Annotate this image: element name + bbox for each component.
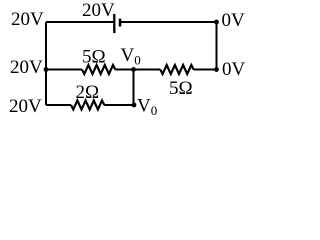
wire V0 drop <box>133 70 135 106</box>
wire bottom right of R3 <box>104 104 134 106</box>
wire middle between R1 and R2 <box>115 69 160 71</box>
wire middle right of R2 <box>194 69 217 71</box>
battery B1 long plate (+) <box>113 14 115 33</box>
svg-text:20V: 20V <box>9 96 42 117</box>
battery B1 short plate (-) <box>119 19 122 27</box>
svg-text:5Ω: 5Ω <box>169 78 193 99</box>
svg-text:0V: 0V <box>222 59 246 80</box>
svg-text:20V: 20V <box>82 0 115 21</box>
node V0 bottom junction <box>132 103 137 108</box>
wire right bus <box>216 22 218 70</box>
wire top left segment <box>46 21 114 23</box>
node 0V top junction <box>214 20 219 25</box>
wire bottom left <box>46 104 71 106</box>
svg-text:20V: 20V <box>11 9 44 30</box>
wire top right segment <box>121 21 217 23</box>
svg-text:20V: 20V <box>10 57 43 78</box>
wire left bus <box>45 22 47 105</box>
node left middle junction <box>44 67 49 72</box>
svg-text:2Ω: 2Ω <box>76 82 100 103</box>
svg-text:0V: 0V <box>222 10 246 31</box>
svg-text:5Ω: 5Ω <box>82 47 106 68</box>
resistor R1 5ohm zigzag <box>82 65 115 74</box>
node V0 middle junction <box>131 67 136 72</box>
resistor R2 5ohm zigzag <box>160 65 193 74</box>
resistor R3 2ohm zigzag <box>71 101 104 110</box>
wire middle row with resistors <box>46 69 82 71</box>
node 0V middle junction <box>214 67 219 72</box>
